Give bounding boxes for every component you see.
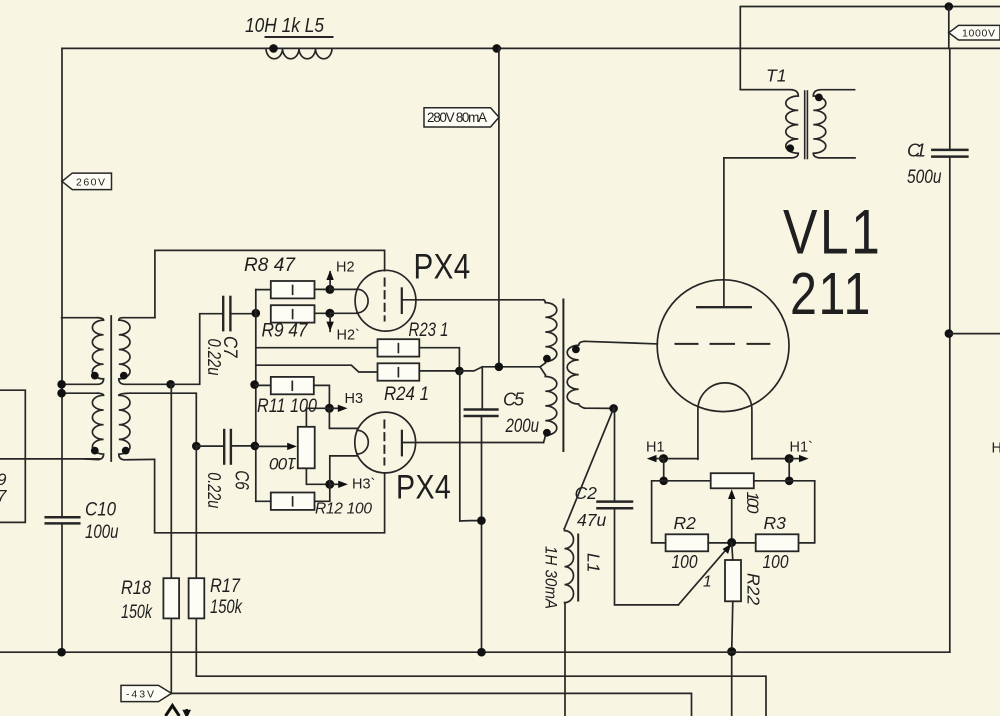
node interstage lower-left dot bbox=[91, 447, 99, 455]
wire C6 right lead bbox=[231, 445, 255, 447]
transformer interstage core bbox=[110, 316, 112, 461]
node bottom rail left dot bbox=[57, 648, 66, 657]
transformer output secondary bbox=[567, 341, 584, 408]
wire center tap fork upper bbox=[540, 363, 545, 367]
resistor R2 bbox=[666, 534, 709, 551]
wire diagonal to L1 bbox=[564, 408, 613, 528]
svg-text:150k: 150k bbox=[121, 602, 153, 623]
big labels bbox=[396, 198, 882, 506]
node pot right dot bbox=[785, 477, 794, 486]
node interstage upper-left dot bbox=[91, 372, 99, 380]
wire lower-right winding bottom to grid loop bbox=[155, 459, 385, 532]
wire R9 right lead bbox=[315, 312, 330, 314]
transformer T1 primary bbox=[724, 90, 798, 158]
svg-text:0.22u: 0.22u bbox=[204, 472, 224, 508]
wiper R22 pot diagonal arrow bbox=[678, 544, 731, 605]
node T1 primary dot bbox=[786, 144, 794, 152]
node pot left dot bbox=[659, 477, 668, 486]
terminal H3 arrow bbox=[329, 405, 347, 412]
resistor R22 bbox=[725, 560, 741, 601]
wiper interstage pot arrow bbox=[255, 443, 297, 450]
transformer interstage lower-left winding bbox=[85, 393, 104, 459]
terminal H3` arrow bbox=[330, 481, 348, 488]
wire H3` to R12 bbox=[315, 484, 330, 501]
svg-text:R12 100: R12 100 bbox=[315, 501, 372, 518]
svg-text:R2: R2 bbox=[674, 513, 697, 533]
wire R8 left lead bbox=[256, 289, 271, 291]
svg-text:L1: L1 bbox=[584, 553, 604, 572]
wire bracket R24 tap bbox=[256, 365, 378, 372]
node 1000V dot bbox=[945, 2, 954, 11]
node C7-R9 dot bbox=[252, 309, 261, 318]
wire upper-left winding top lead bbox=[62, 317, 99, 319]
resistor R9 bbox=[271, 305, 315, 322]
inductor L1 core bbox=[577, 535, 579, 601]
svg-text:R11 100: R11 100 bbox=[257, 395, 317, 417]
tube PX4 lower anode bbox=[401, 431, 403, 456]
wire R11 left lead bbox=[256, 384, 271, 386]
svg-text:1000V: 1000V bbox=[962, 28, 995, 40]
node B+ tap dot bbox=[492, 44, 501, 53]
tube PX4 upper anode bbox=[401, 288, 403, 313]
potentiometer 100 filament bbox=[711, 473, 754, 488]
svg-text:C10: C10 bbox=[85, 500, 116, 521]
wire R24 right to junction bbox=[419, 370, 459, 372]
node right rail dot bbox=[945, 329, 954, 338]
wire 1000V stub bbox=[948, 7, 950, 49]
svg-text:C5: C5 bbox=[503, 390, 525, 410]
resistor R24 bbox=[378, 363, 420, 380]
svg-text:C2: C2 bbox=[575, 483, 598, 503]
svg-text:47u: 47u bbox=[577, 510, 606, 530]
wire left rail below C10 bbox=[61, 523, 63, 652]
node central junction dot bbox=[727, 538, 736, 547]
resistor R17 bbox=[189, 578, 205, 618]
node H2` dot bbox=[325, 309, 334, 318]
wire left 260V rail upper bbox=[61, 48, 63, 517]
wire VL1 filament right bbox=[752, 458, 789, 460]
inductor L5 bbox=[266, 37, 333, 59]
wire C7 to R9 node bbox=[230, 313, 255, 315]
wire pot right branch down to R3 bbox=[799, 481, 815, 543]
node H2 dot bbox=[325, 285, 334, 294]
wire pot left branch down to R2 bbox=[652, 481, 666, 543]
node C6 left dot bbox=[192, 442, 201, 451]
tube VL1 envelope bbox=[657, 280, 789, 412]
wire 280V supply vertical bbox=[498, 48, 500, 366]
wire right stub bbox=[950, 333, 1000, 335]
wire junction to R18 bbox=[170, 384, 172, 578]
wire input lead to lower-left winding bbox=[0, 458, 99, 460]
wire VL1 filament left bbox=[664, 458, 698, 460]
resistor R3 bbox=[756, 534, 799, 551]
svg-text:500u: 500u bbox=[907, 166, 942, 188]
svg-text:10H 1k L5: 10H 1k L5 bbox=[245, 15, 325, 37]
svg-text:R17: R17 bbox=[210, 576, 241, 597]
node bottom rail C5 dot bbox=[477, 648, 486, 657]
node output primary lower dot bbox=[543, 429, 551, 437]
svg-text:C1: C1 bbox=[907, 140, 926, 161]
wire C1 branch vertical upper bbox=[949, 48, 951, 149]
tube VL1 grid bbox=[676, 343, 770, 345]
wire lower-left winding top lead bbox=[62, 392, 99, 394]
svg-text:R8 47: R8 47 bbox=[244, 254, 296, 276]
svg-text:T1: T1 bbox=[766, 66, 786, 86]
wire T1 to VL1 plate bbox=[723, 158, 725, 307]
wire C6 to R17 bbox=[195, 446, 197, 578]
wire R12 left lead bbox=[256, 500, 271, 502]
wire grid bias bracket bbox=[256, 290, 378, 348]
node output secondary dot bbox=[572, 346, 580, 354]
svg-text:VL1: VL1 bbox=[783, 198, 882, 268]
node H1 dot bbox=[659, 454, 668, 463]
svg-text:H3: H3 bbox=[345, 391, 364, 407]
svg-text:H2`: H2` bbox=[337, 328, 360, 344]
svg-text:R23 1: R23 1 bbox=[409, 320, 449, 341]
node L5 input dot bbox=[269, 44, 278, 53]
node R11 left dot bbox=[250, 380, 259, 389]
resistor R12 bbox=[271, 493, 315, 510]
node secondary junction dot bbox=[609, 404, 618, 413]
node B+ center tap dot bbox=[495, 363, 504, 372]
svg-text:100: 100 bbox=[743, 492, 762, 515]
wire C1 to bottom rail bbox=[949, 158, 951, 652]
wire C5 bottom lead bbox=[481, 416, 483, 652]
node R23-R24 dot bbox=[455, 367, 464, 376]
input block left edge bbox=[0, 390, 25, 522]
svg-text:100: 100 bbox=[672, 552, 698, 572]
transformer output primary upper bbox=[544, 300, 557, 363]
capacitor C2 bbox=[598, 502, 633, 509]
terminal H1` arrow bbox=[789, 455, 809, 462]
svg-text:200u: 200u bbox=[505, 416, 540, 437]
flag 260V bbox=[62, 173, 112, 190]
potentiometer 100 interstage bbox=[298, 427, 315, 469]
wire R23 right to junction bbox=[419, 348, 459, 371]
svg-text:R9 47: R9 47 bbox=[262, 321, 309, 342]
wire R8 right lead bbox=[315, 288, 330, 290]
wire tube filament to H3` bbox=[330, 456, 357, 484]
svg-text:7: 7 bbox=[0, 487, 7, 506]
wire R22 bottom lead bbox=[732, 601, 733, 716]
wire R2 right lead bbox=[708, 542, 732, 544]
svg-text:100: 100 bbox=[763, 552, 789, 572]
tube PX4 upper grid bbox=[384, 279, 386, 321]
wire R11 right lead bbox=[314, 385, 330, 408]
node 260V rail dot upper bbox=[57, 380, 66, 389]
svg-text:H1: H1 bbox=[992, 441, 1000, 457]
node C6 right dot bbox=[251, 442, 260, 451]
node H3` dot bbox=[325, 480, 334, 489]
node output primary upper dot bbox=[543, 355, 551, 363]
wire upper grid loop bbox=[155, 250, 385, 317]
wire C5 top lead bbox=[481, 367, 483, 410]
wire R18 bottom lead bbox=[170, 618, 172, 693]
transformer T1 core bbox=[805, 91, 808, 159]
wire center tap fork lower bbox=[540, 367, 545, 375]
capacitor C7 bbox=[223, 297, 230, 330]
wire C2 down to wiper line bbox=[615, 508, 679, 605]
wire pot top right bbox=[754, 480, 815, 482]
wire -43V rail bbox=[172, 693, 692, 716]
svg-text:R24 1: R24 1 bbox=[384, 384, 429, 405]
svg-text:R3: R3 bbox=[764, 513, 787, 533]
capacitor C1 bbox=[932, 150, 967, 157]
wire junction to C7 bbox=[171, 314, 224, 385]
tube PX4 lower envelope bbox=[355, 412, 416, 473]
wire PX4 upper anode lead bbox=[402, 299, 544, 301]
label L5 bbox=[245, 15, 325, 37]
svg-text:PX4: PX4 bbox=[414, 247, 471, 286]
svg-text:H1`: H1` bbox=[790, 440, 813, 456]
wire PX4 lower anode lead bbox=[402, 442, 544, 444]
svg-text:280V 80mA: 280V 80mA bbox=[427, 110, 487, 125]
transformer output core bbox=[562, 300, 564, 452]
svg-text:260V: 260V bbox=[76, 177, 105, 189]
capacitor C6 bbox=[224, 430, 231, 464]
terminal H2 arrow bbox=[326, 270, 333, 289]
wiper filament pot arrow bbox=[728, 489, 735, 542]
wire H2` to tube filament bbox=[330, 312, 357, 314]
resistor R11 bbox=[271, 377, 314, 394]
terminal H2` arrow bbox=[326, 313, 333, 331]
node H1` dot bbox=[785, 454, 794, 463]
node C5 branch dot bbox=[477, 516, 486, 525]
svg-text:211: 211 bbox=[790, 262, 872, 328]
node T1 secondary dot bbox=[815, 94, 823, 102]
svg-text:100u: 100u bbox=[85, 522, 119, 543]
tube PX4 lower filament bbox=[357, 430, 368, 454]
node H3 dot bbox=[325, 404, 334, 413]
node interstage lower-right dot bbox=[122, 447, 130, 455]
flag 280V 80mA bbox=[424, 108, 499, 127]
tube VL1 filament bbox=[698, 383, 752, 459]
svg-text:R22: R22 bbox=[744, 573, 764, 605]
transformer interstage upper-left winding bbox=[62, 318, 104, 385]
svg-text:0.22u: 0.22u bbox=[204, 339, 224, 376]
wire junction down to C2 bbox=[614, 408, 616, 501]
svg-text:H2: H2 bbox=[336, 260, 355, 276]
node 260V rail dot lower bbox=[57, 389, 66, 398]
wire R3 left lead bbox=[732, 542, 756, 544]
capacitor C10 bbox=[46, 517, 80, 523]
svg-text:H1: H1 bbox=[646, 440, 665, 456]
wire lower-right winding top to C6 bbox=[130, 393, 196, 446]
wire pot bottom to H3` bbox=[306, 468, 329, 484]
flag 1000V bbox=[949, 25, 1000, 40]
tube VL1 plate bbox=[697, 306, 751, 308]
terminal H1 arrow bbox=[647, 455, 664, 462]
resistor R18 bbox=[163, 578, 179, 618]
wire H3 to pot top bbox=[306, 408, 329, 427]
node interstage upper-right dot bbox=[120, 372, 128, 380]
transformer output primary lower bbox=[544, 375, 557, 443]
symbol arrow footer bbox=[184, 709, 189, 716]
wire R22 top lead bbox=[732, 543, 733, 560]
wire secondary bottom to junction bbox=[585, 407, 614, 409]
svg-text:C6: C6 bbox=[231, 470, 252, 490]
wire bottom rail bbox=[0, 651, 950, 653]
svg-text:1H 30mA: 1H 30mA bbox=[542, 546, 560, 609]
resistor R23 bbox=[378, 339, 420, 356]
svg-text:100: 100 bbox=[269, 454, 297, 473]
node bottom rail R22 dot bbox=[727, 647, 736, 656]
transformer T1 secondary bbox=[813, 90, 855, 158]
wire junction to center tap bbox=[459, 367, 540, 371]
transformer interstage lower-right winding bbox=[119, 393, 155, 460]
symbol delta footer bbox=[166, 706, 180, 716]
transformer interstage upper-right winding bbox=[119, 318, 171, 385]
svg-text:R18: R18 bbox=[121, 578, 151, 599]
wire bracket lower bbox=[255, 348, 257, 502]
inductor L1 bbox=[564, 529, 573, 716]
wire H1 stub down bbox=[663, 459, 665, 481]
wire H2 to tube filament bbox=[330, 288, 357, 290]
tube PX4 lower grid bbox=[383, 421, 385, 465]
wire top rail 280V bbox=[62, 47, 1000, 49]
wire R17 bottom lead bbox=[196, 618, 766, 716]
wire H1` stub down bbox=[788, 459, 790, 481]
wire C6 left lead bbox=[196, 445, 224, 447]
wire junction down to C5 lead bbox=[460, 371, 482, 521]
wire H3 to tube filament bbox=[329, 408, 357, 428]
tube PX4 upper envelope bbox=[355, 270, 416, 331]
svg-text:150k: 150k bbox=[210, 597, 243, 618]
node C7 junction dot bbox=[166, 380, 175, 389]
resistor R8 bbox=[271, 281, 315, 298]
svg-text:H3`: H3` bbox=[352, 477, 375, 493]
flag -43V bbox=[121, 685, 172, 701]
wire secondary top to VL1 grid bbox=[585, 341, 658, 344]
tube PX4 upper filament bbox=[357, 289, 368, 313]
wire top right 1000V rail bbox=[740, 7, 1000, 90]
capacitor C5 bbox=[465, 410, 498, 417]
svg-text:PX4: PX4 bbox=[396, 468, 451, 506]
wire pot top left bbox=[664, 480, 711, 482]
svg-text:1: 1 bbox=[703, 574, 712, 591]
